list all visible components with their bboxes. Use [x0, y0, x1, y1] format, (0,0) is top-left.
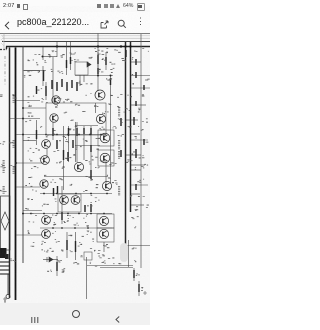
fuse blob	[0, 248, 7, 258]
nav home	[72, 310, 81, 319]
label speckles	[0, 48, 150, 291]
diode row bottom 2	[87, 62, 104, 69]
wire: left rail B (vertical thick)	[15, 48, 17, 301]
rectifier block D1	[1, 196, 11, 250]
ground symbol	[3, 297, 7, 303]
wire: upper supply bus	[2, 41, 150, 43]
transistor Q11	[102, 181, 111, 190]
transistor Q8	[40, 180, 48, 188]
transistor Q13	[71, 196, 80, 205]
transistor Q14	[42, 216, 51, 225]
component boxes	[46, 62, 114, 260]
transistor Q16	[99, 216, 108, 225]
junction dots misc	[15, 56, 112, 215]
wire: sheet top border	[0, 33, 150, 35]
wires below box B1	[80, 75, 84, 86]
nav recents	[31, 310, 39, 316]
resistors (blobs)	[37, 50, 145, 292]
transistor Q6	[41, 156, 50, 165]
transistor Q3	[50, 114, 58, 122]
wire stubs left area	[10, 57, 107, 236]
transistor Q15	[42, 230, 51, 239]
node junctions on buses	[30, 134, 108, 229]
diode row bottom	[43, 257, 58, 262]
transistor Q2	[95, 90, 105, 100]
vertical text labels	[3, 95, 121, 195]
transistor Q10	[100, 153, 110, 163]
transistor Q12	[60, 196, 69, 205]
nav back	[115, 310, 120, 317]
scroll pill	[120, 243, 128, 262]
corner cross mark	[143, 291, 147, 295]
wire: main V+ rail (thick)	[6, 46, 150, 48]
schematic canvas	[0, 0, 150, 325]
wire: faint top bus	[2, 35, 150, 37]
vertical wires	[37, 34, 140, 300]
wire: middle buses	[23, 76, 133, 268]
wire: right rail pair	[125, 42, 127, 246]
transistor Q9	[100, 133, 110, 143]
transistor Q4	[96, 114, 105, 123]
transistor Q17	[99, 229, 108, 238]
wire: far right rail	[140, 34, 142, 268]
photo noise overlay	[0, 0, 1, 1]
transistor Q5	[42, 140, 51, 149]
wire: sheet left border	[3, 34, 5, 51]
transistor Q1	[52, 96, 60, 104]
title bar	[0, 12, 150, 33]
wire: corner from V+ rail down	[6, 47, 8, 50]
status bar	[0, 0, 150, 12]
connector block	[0, 262, 10, 274]
nav bar	[0, 303, 150, 325]
wire stubs right area	[126, 62, 150, 246]
hatch corner	[1, 35, 4, 46]
wire: left rail C	[22, 47, 24, 264]
wire: dash-dot left margin	[4, 56, 6, 86]
wire to ground lug	[7, 274, 9, 295]
node junction dots on V+ rail	[56, 45, 132, 47]
wire: left rail A (vertical)	[9, 48, 11, 299]
transistor Q7	[74, 162, 83, 171]
